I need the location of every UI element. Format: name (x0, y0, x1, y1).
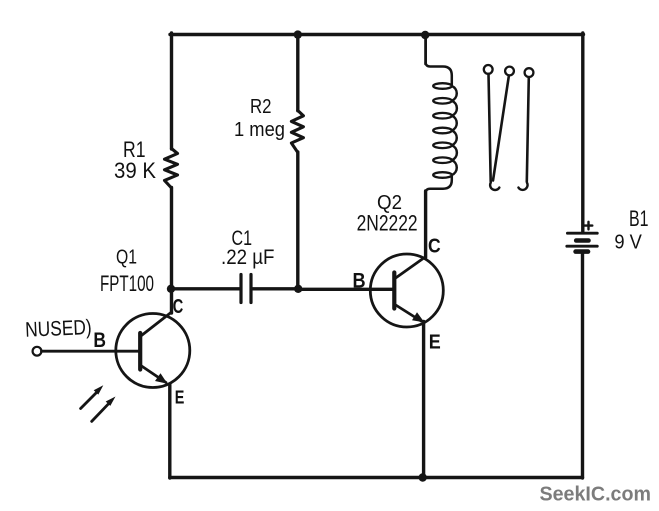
junction node Q2 emitter bottom rail (419, 473, 427, 481)
wire Q1 base lead (42, 350, 139, 353)
relay coil K1 loop eye 1 (433, 83, 452, 89)
relay coil K1 loop eye 4 (433, 128, 452, 134)
junction node left (R1 / C1 / Q1 collector) (167, 285, 175, 293)
battery B1 plate short lower (576, 249, 588, 254)
transistor Q1 emitter stroke (141, 366, 166, 383)
relay coil K1 top elbow (426, 63, 452, 86)
wire Q2 emitter vertical (422, 322, 425, 479)
relay coil K1 loop eye 5 (433, 143, 452, 149)
svg-text:9 V: 9 V (614, 231, 642, 254)
svg-text:39 K: 39 K (114, 158, 156, 183)
svg-text:E: E (429, 330, 441, 353)
junction node R2 top rail (294, 30, 302, 38)
battery B1 plate long bottom (567, 245, 598, 248)
wire node to Q2 base (298, 288, 392, 291)
relay coil K1 loop eye 3 (433, 113, 452, 119)
transistor Q1 circle (116, 314, 190, 388)
svg-text:C: C (428, 235, 441, 258)
relay contact terminal circle 2 (505, 67, 514, 76)
light arrow 1 (81, 392, 97, 409)
svg-text:2N2222: 2N2222 (357, 211, 418, 236)
junction node coil top rail (421, 31, 429, 39)
wire R2 top drop (296, 35, 299, 111)
wire Q1 collector vertical (170, 289, 173, 313)
svg-text:B: B (93, 329, 106, 352)
relay contact blade 2 (armature) (493, 76, 509, 181)
relay contact terminal circle 1 (484, 65, 493, 74)
transistor Q1 base bar (138, 333, 142, 370)
relay coil K1 right arcs (452, 86, 457, 175)
relay coil K1 bottom elbow (426, 175, 452, 192)
battery B1 polarity plus mark (585, 222, 593, 230)
relay contact terminal circle 3 (525, 68, 534, 77)
resistor R1 (165, 149, 178, 189)
wire Q2 collector vertical (424, 191, 427, 258)
transistor Q1 emitter arrowhead (155, 373, 168, 384)
relay contact blade 3 (527, 77, 529, 181)
light arrow 2 (92, 404, 109, 422)
wire coil top drop (424, 35, 427, 64)
wire right vertical upper (top rail to battery) (581, 33, 584, 232)
svg-text:NUSED): NUSED) (25, 316, 92, 342)
terminal open circle Q1 base (unused) (33, 347, 42, 356)
svg-text:.22 µF: .22 µF (221, 246, 275, 269)
transistor Q2 collector stroke (395, 257, 425, 279)
resistor R2 (291, 111, 303, 153)
wire Q1 emitter vertical (168, 385, 171, 479)
wire top rail (170, 33, 584, 36)
relay contact blade 1 (489, 74, 491, 182)
relay contact hook right (518, 183, 527, 190)
wire C1 left segment (171, 287, 240, 290)
wire left vertical upper (top rail to R1) (170, 33, 173, 149)
wire bottom rail (170, 476, 583, 479)
battery B1 plate short upper (576, 238, 588, 243)
wire C1 right segment to node (252, 287, 298, 290)
svg-text:1 meg: 1 meg (234, 119, 285, 141)
relay contact hook left (490, 183, 499, 190)
junction node R2 / C1 rail (294, 285, 302, 293)
svg-text:B: B (353, 269, 366, 292)
transistor Q2 circle (370, 254, 443, 327)
transistor Q2 emitter stroke (395, 305, 421, 322)
wire right vertical lower (battery to bottom rail) (581, 252, 584, 478)
relay coil K1 loop eye 6 (433, 157, 452, 163)
svg-text:R2: R2 (250, 96, 272, 118)
svg-text:C: C (173, 296, 184, 318)
battery B1 plate long top (567, 232, 597, 235)
transistor Q2 emitter arrowhead (412, 312, 424, 322)
svg-text:E: E (175, 386, 185, 407)
svg-text:B1: B1 (629, 206, 649, 231)
svg-text:Q1: Q1 (116, 246, 137, 269)
wire left vertical lower (R1 to node) (170, 188, 173, 290)
transistor Q2 base bar (392, 273, 396, 309)
wire R2 bottom drop (296, 152, 299, 289)
svg-text:FPT100: FPT100 (100, 271, 154, 296)
transistor Q1 collector stroke (141, 313, 171, 337)
relay coil K1 loop eye 7 (433, 172, 452, 178)
capacitor C1 (241, 275, 251, 303)
relay coil K1 loop eye 2 (433, 98, 452, 104)
svg-text:SeekIC.com: SeekIC.com (540, 483, 652, 506)
